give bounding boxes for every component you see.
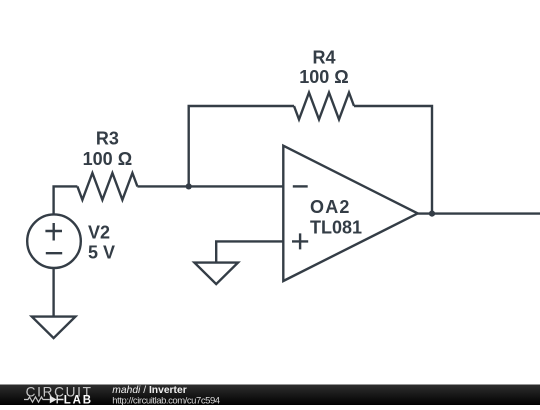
node at R3 / feedback junction	[186, 183, 192, 189]
wire R4 to output node	[354, 106, 432, 214]
resistor R3	[77, 173, 137, 200]
logo diode glyph	[50, 396, 57, 404]
wire feedback left vertical	[189, 106, 294, 186]
svg-text:R3: R3	[96, 128, 119, 148]
svg-text:http://circuitlab.com/cu7c594: http://circuitlab.com/cu7c594	[112, 395, 220, 405]
V2 minus marking	[46, 252, 62, 254]
svg-text:OA2: OA2	[310, 197, 351, 217]
V2 plus marking	[45, 223, 62, 241]
svg-text:100 Ω: 100 Ω	[83, 149, 132, 169]
op-amp minus input marking	[293, 185, 308, 187]
wire op-amp output	[418, 212, 540, 214]
voltage source V2	[27, 214, 81, 268]
svg-text:R4: R4	[312, 48, 335, 68]
svg-text:V2: V2	[88, 223, 110, 243]
resistor R4	[294, 93, 354, 120]
wire R3 to op-amp inverting input	[137, 185, 283, 187]
svg-text:TL081: TL081	[310, 218, 362, 238]
svg-text:5 V: 5 V	[88, 243, 115, 263]
svg-text:100 Ω: 100 Ω	[299, 67, 348, 87]
footer bar	[0, 385, 540, 406]
svg-text:LAB: LAB	[64, 394, 93, 405]
logo resistor zigzag glyph	[24, 397, 50, 402]
op-amp OA2 triangle	[283, 146, 417, 281]
wire V2 to ground	[52, 268, 54, 317]
node at output junction	[429, 211, 435, 217]
wire non-inverting input to ground	[216, 241, 283, 262]
op-amp plus input marking	[292, 233, 308, 249]
ground below V2	[32, 317, 76, 339]
wire V2 to R3	[54, 186, 78, 214]
logo diode bar and lead	[57, 396, 63, 404]
ground at op-amp non-inverting input	[194, 263, 238, 285]
